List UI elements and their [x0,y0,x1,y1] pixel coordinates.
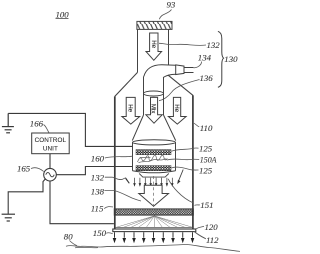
svg-text:110: 110 [200,123,213,133]
svg-text:Mix: Mix [150,104,157,113]
svg-text:125: 125 [199,165,213,175]
exhaust arrows [113,232,195,243]
label 120 [196,222,218,232]
axis dashed line [153,176,155,208]
svg-text:132: 132 [91,173,105,183]
mixing tube left wall [143,77,145,116]
AC source 165 [44,168,57,181]
Mix flow arrow [146,97,162,123]
label 100 [56,10,70,20]
He flow arrow right [168,97,186,124]
label 93 [159,0,176,19]
svg-text:132: 132 [207,40,221,50]
spray fan [116,216,192,227]
mixed gas arrow (large) [139,185,169,206]
svg-text:150: 150 [93,228,107,238]
svg-text:112: 112 [206,235,219,245]
label 125 upper [171,143,212,153]
left flare wall [115,72,138,96]
label 132 top [159,40,220,50]
ground G2 [2,214,15,221]
gas pipe 134 [184,68,194,73]
svg-text:He: He [173,104,180,112]
svg-text:100: 100 [56,10,70,20]
right flare wall [168,75,193,95]
He inlet flow arrow (top duct) [146,33,162,60]
svg-text:130: 130 [224,54,238,64]
svg-text:115: 115 [91,203,104,213]
svg-text:151: 151 [200,200,213,210]
label 166 [30,119,49,133]
brace for 130 [218,31,224,87]
label 150A [167,156,216,165]
diffuser cone right [164,115,176,141]
wire AC source to lower electrode [56,167,132,175]
svg-text:138: 138 [91,187,105,197]
svg-text:UNIT: UNIT [43,145,58,152]
label 115 [91,203,113,213]
svg-text:120: 120 [205,222,219,232]
electrode 125 upper [136,150,171,155]
svg-text:165: 165 [17,164,31,174]
label 165 [17,164,44,174]
svg-text:166: 166 [30,119,44,129]
flow arrows under cylinder [133,178,173,187]
right flow arrow [177,170,183,185]
label 132 left with flow arrow [91,173,130,184]
chamber right wall 110 [192,95,194,231]
label 160 [91,153,133,163]
tube ellipse [144,91,164,96]
elbow pipe outer wall [144,65,176,77]
catalyst 150A scribble [138,155,168,162]
gas inlet cap 93 [137,21,172,29]
control unit 166 [32,133,69,154]
chamber left wall [114,96,116,231]
wire control unit to AC source [49,154,51,169]
ground G1 [2,113,14,132]
svg-text:80: 80 [64,231,73,241]
label 150 [93,228,113,238]
svg-text:160: 160 [91,153,105,163]
duct left wall [137,29,139,72]
shower plate 151 [114,209,193,215]
label 112 [194,231,219,245]
svg-text:He: He [126,104,133,112]
label 80 [64,231,77,245]
svg-text:93: 93 [167,0,176,10]
substrate plate 120 [113,229,196,232]
svg-text:125: 125 [199,143,213,153]
right flow curve [168,179,193,203]
svg-text:150A: 150A [200,156,217,165]
label 134 [194,53,212,68]
fan baseline [116,226,193,228]
label 110 [194,123,213,133]
label 125 lower [171,165,212,175]
pipe fitting 136 [176,65,184,75]
label 151 [195,200,214,210]
svg-text:CONTROL: CONTROL [35,137,67,144]
svg-text:134: 134 [198,53,212,63]
wire AC source to chamber base [50,181,114,224]
label 138 [91,187,141,201]
svg-text:136: 136 [200,73,214,83]
label 136 [159,73,213,101]
electrode 125 lower [136,166,171,171]
wire AC source to ground G2 [8,179,45,214]
wire from ground to upper electrode [8,113,132,146]
diffuser cone left [132,115,143,141]
surface squiggle small [75,246,98,248]
cell cylinder 160 [133,140,176,177]
svg-text:He: He [150,40,157,48]
mixing tube right wall [163,78,165,116]
duct right wall [168,29,170,64]
surface squiggle 80 [66,244,240,251]
elbow pipe inner wall [163,74,176,77]
He flow arrow left [122,97,140,124]
